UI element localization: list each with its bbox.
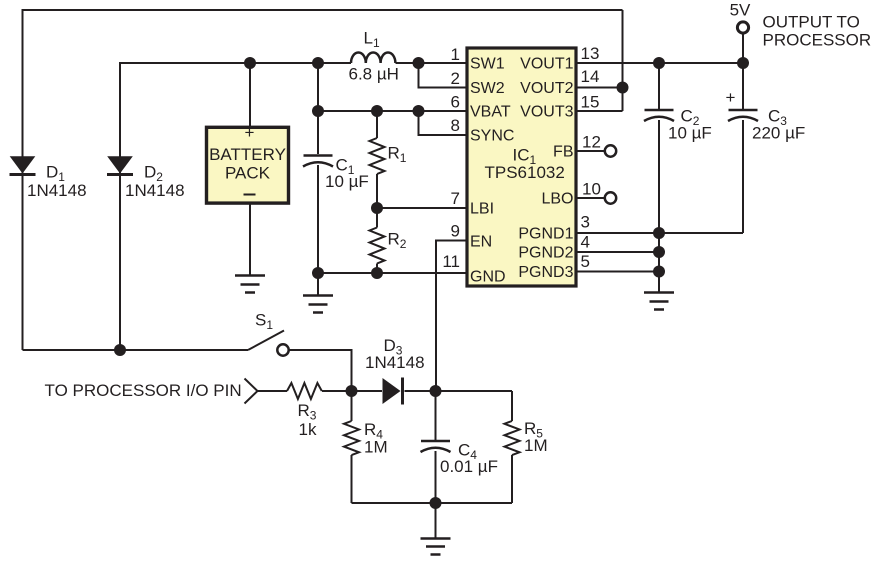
- wire FB stub: [577, 150, 605, 152]
- svg-text:VOUT1: VOUT1: [520, 56, 573, 73]
- svg-text:LBO: LBO: [541, 191, 573, 208]
- battery ground: [249, 203, 251, 275]
- svg-text:13: 13: [581, 44, 600, 63]
- svg-text:SW2: SW2: [470, 80, 505, 97]
- 5V terminal: [737, 22, 748, 33]
- wire SYNC branch: [419, 111, 467, 135]
- wire left vertical (D1 branch): [22, 9, 24, 350]
- wire GND row: [318, 272, 466, 274]
- svg-text:6: 6: [451, 93, 460, 112]
- node SYNC branch: [413, 105, 425, 117]
- svg-text:OUTPUT TO: OUTPUT TO: [763, 13, 860, 32]
- wire VOUT2 row: [577, 87, 623, 89]
- wire C4 column: [435, 391, 437, 503]
- svg-text:3: 3: [581, 213, 590, 232]
- node battery top: [244, 57, 256, 69]
- bottom ground: [421, 539, 451, 555]
- resistor R5: [505, 421, 520, 455]
- IC U1 TPS61032 body: [467, 48, 576, 286]
- diode D3: [383, 378, 401, 404]
- switch S1: [248, 331, 284, 351]
- svg-text:1N4148: 1N4148: [365, 353, 425, 372]
- svg-text:TO PROCESSOR I/O PIN: TO PROCESSOR I/O PIN: [45, 381, 242, 400]
- FB terminal circle pin 12: [605, 145, 616, 156]
- resistor R4: [344, 421, 359, 455]
- svg-text:VOUT3: VOUT3: [520, 104, 573, 121]
- svg-text:0.01 µF: 0.01 µF: [440, 457, 498, 476]
- svg-text:10 µF: 10 µF: [668, 124, 712, 143]
- wire top horizontal: [23, 9, 623, 11]
- wire R2 column: [376, 208, 378, 273]
- node D2 switch row: [114, 344, 126, 356]
- node PGND3: [653, 266, 665, 278]
- wire battery top: [249, 63, 251, 127]
- node PGND1: [653, 227, 665, 239]
- svg-text:SW1: SW1: [470, 56, 505, 73]
- svg-text:+: +: [245, 123, 255, 142]
- wire second row horizontal (battery/C1 to L1): [120, 62, 351, 64]
- wire top-right vertical: [622, 10, 624, 111]
- capacitor C1: [304, 154, 333, 157]
- battery pack body: [207, 127, 289, 203]
- wire PGND2 row: [577, 251, 659, 253]
- wire R4 column: [351, 391, 353, 503]
- svg-text:1M: 1M: [524, 436, 548, 455]
- LBO terminal circle pin 10: [605, 192, 616, 203]
- svg-text:PGND2: PGND2: [518, 245, 573, 262]
- node R1 top: [371, 105, 383, 117]
- wire D2 vertical: [119, 62, 121, 350]
- capacitor C4: [421, 440, 450, 443]
- node PGND2: [653, 246, 665, 258]
- svg-text:+: +: [726, 88, 736, 107]
- diode D1: [10, 156, 36, 173]
- svg-text:8: 8: [451, 116, 460, 135]
- svg-text:PACK: PACK: [225, 164, 271, 183]
- node L1/SW junction: [413, 57, 425, 69]
- wire PGND3 row: [577, 271, 659, 273]
- svg-text:SYNC: SYNC: [470, 128, 514, 145]
- wire VOUT1 row: [577, 62, 743, 64]
- wire R5 column: [511, 391, 513, 503]
- svg-text:7: 7: [451, 189, 460, 208]
- wire PGND ground column: [658, 233, 660, 292]
- resistor R1: [370, 138, 385, 174]
- inductor L1: [351, 53, 395, 64]
- wire SW2 branch: [419, 63, 467, 88]
- node R3/R4 junction: [346, 385, 358, 397]
- node C1 GND: [312, 267, 324, 279]
- svg-text:5: 5: [581, 252, 590, 271]
- resistor R2: [370, 228, 385, 264]
- wire R1 column: [376, 111, 378, 208]
- svg-text:PROCESSOR: PROCESSOR: [763, 31, 872, 50]
- diode D2: [107, 156, 133, 173]
- wire bottom ground stub: [435, 503, 437, 538]
- svg-text:6.8 µH: 6.8 µH: [349, 65, 399, 84]
- svg-text:1M: 1M: [364, 438, 388, 457]
- node D3 cathode junction: [430, 385, 442, 397]
- node C1 top: [312, 57, 324, 69]
- wire switch to D3 junction: [290, 350, 352, 391]
- svg-text:BATTERY: BATTERY: [209, 145, 286, 164]
- wire L1 output to SW1: [396, 62, 467, 64]
- wire PGND1 row: [577, 232, 743, 234]
- wire LBI row: [377, 207, 466, 209]
- resistor R3: [287, 383, 322, 399]
- wire bottom row (R3 to R5): [258, 390, 513, 392]
- svg-text:15: 15: [581, 93, 600, 112]
- svg-text:GND: GND: [470, 269, 506, 286]
- svg-text:1N4148: 1N4148: [125, 181, 185, 200]
- svg-text:VBAT: VBAT: [470, 104, 511, 121]
- svg-text:TPS61032: TPS61032: [485, 163, 565, 182]
- svg-text:12: 12: [582, 133, 601, 152]
- svg-text:1k: 1k: [299, 420, 317, 439]
- svg-text:2: 2: [451, 69, 460, 88]
- wire C1 vertical bottom: [317, 165, 319, 296]
- node R1/R2 LBI: [371, 202, 383, 214]
- wire C2 vertical: [658, 63, 660, 233]
- svg-text:10 µF: 10 µF: [325, 172, 369, 191]
- C1 ground: [303, 296, 333, 313]
- svg-text:11: 11: [442, 252, 460, 271]
- wire bottom rail: [352, 502, 513, 504]
- PGND ground: [644, 293, 674, 310]
- wire LBO stub: [577, 197, 605, 199]
- svg-text:10: 10: [582, 180, 601, 199]
- svg-text:VOUT2: VOUT2: [520, 80, 573, 97]
- node C3 top: [737, 57, 749, 69]
- capacitor C2: [645, 109, 674, 112]
- svg-text:5V: 5V: [730, 1, 751, 20]
- svg-text:9: 9: [451, 222, 460, 241]
- svg-text:1: 1: [451, 45, 460, 64]
- node bottom rail: [430, 497, 442, 509]
- svg-text:PGND3: PGND3: [518, 264, 573, 281]
- node C1 VBAT: [312, 105, 324, 117]
- wire C3 bottom to PGND1: [659, 232, 743, 234]
- wire switch row: [23, 349, 249, 351]
- svg-text:1N4148: 1N4148: [27, 181, 87, 200]
- wire VOUT3 row: [577, 110, 623, 112]
- svg-text:FB: FB: [553, 144, 573, 161]
- svg-text:4: 4: [581, 233, 590, 252]
- svg-text:PGND1: PGND1: [518, 226, 573, 243]
- capacitor C3: [729, 109, 758, 112]
- input chevron: [245, 379, 258, 404]
- node C2 top: [653, 57, 665, 69]
- wire VBAT row: [318, 110, 466, 112]
- node VOUT2 junction: [617, 82, 629, 94]
- svg-text:EN: EN: [470, 234, 492, 251]
- svg-text:220 µF: 220 µF: [752, 124, 805, 143]
- wire C3 vertical: [742, 33, 744, 233]
- wire C1 vertical top: [317, 63, 319, 154]
- battery minus sign: [244, 194, 256, 196]
- node R2 bottom: [371, 267, 383, 279]
- wire EN row and drop to D3: [436, 241, 466, 392]
- svg-text:LBI: LBI: [470, 201, 494, 218]
- svg-text:14: 14: [581, 67, 600, 86]
